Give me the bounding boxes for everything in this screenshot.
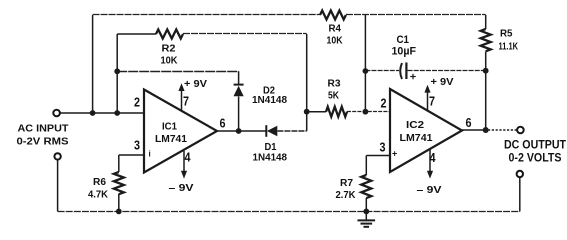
wire D2 vertical top [238,71,240,84]
node: D2/output junction [236,128,242,134]
wire top rail left segment [93,14,320,16]
op-amp U1 IC1 triangle [144,90,217,173]
svg-text:3: 3 [380,141,386,155]
wire IC1 output to D1 [217,130,266,132]
svg-text:R6: R6 [93,176,106,188]
svg-text:+: + [392,149,397,159]
svg-text:R2: R2 [162,43,176,55]
svg-text:4.7K: 4.7K [88,189,108,201]
wire D2 vertical bottom [238,97,240,132]
resistor R6 zigzag [114,172,124,194]
ground stub [365,211,367,219]
svg-text:– 9V: – 9V [169,182,194,194]
wire C1 left [365,70,399,72]
resistor R5 zigzag [481,29,491,51]
arrowhead IC1 pin 4 [181,171,187,179]
svg-text:2: 2 [134,96,140,110]
svg-text:1N4148: 1N4148 [252,95,287,106]
svg-text:7: 7 [429,95,435,109]
svg-text:4: 4 [185,151,191,165]
wire D1 to riser [277,130,306,132]
svg-text:+ 9V: + 9V [184,78,207,90]
wire column top rail to IC2 pin 2 node [364,15,366,112]
node: R6/rail junction [116,209,122,215]
svg-text:AC INPUT: AC INPUT [18,124,69,135]
diode D1 triangle (pointing left) [267,126,277,137]
wire R7 top vertical [365,156,367,176]
svg-text:2.7K: 2.7K [336,189,356,201]
ground bar 3 [364,226,370,228]
node: input/R2 junction [114,110,120,116]
wire R5 bottom to IC2 output [485,52,487,131]
arrowhead IC2 pin 7 [424,85,430,93]
svg-text:4: 4 [430,151,436,165]
-9V arrow IC2 pin 4 [429,149,431,173]
resistor R3 zigzag [326,107,347,117]
svg-text:10K: 10K [161,55,178,67]
svg-text:6: 6 [220,117,226,131]
wire top rail right segment [346,14,486,16]
wire lower input terminal drop [57,159,59,211]
svg-text:5K: 5K [328,90,339,102]
svg-text:i: i [149,150,151,159]
node: C1 left junction [363,68,369,74]
capacitor C1 curved plate [400,63,402,79]
+9V arrow IC1 pin 7 [181,89,183,111]
wire D2 feed horizontal [117,71,238,73]
wire R6 top vertical [118,155,120,172]
wire IC2 output [462,129,483,131]
wire R3 right to IC2 pin 2 [347,111,390,113]
svg-text:+ 9V: + 9V [431,76,454,88]
resistor R7 zigzag [361,175,371,198]
diode D2 triangle (pointing up) [234,86,244,96]
terminal DC output + [517,127,524,134]
svg-text:10K: 10K [327,35,343,47]
terminal AC input + [53,110,60,117]
svg-text:LM741: LM741 [400,133,433,144]
node: input/top-rail junction [90,110,96,116]
svg-text:2: 2 [381,97,387,111]
+9V arrow IC2 pin 7 [427,91,429,111]
diode D1 cathode bar [265,125,267,137]
wire node to DC output terminal [488,129,517,131]
resistor R4 zigzag [320,11,346,20]
node: IC2 output junction [483,127,489,133]
arrowhead IC2 pin 4 [427,171,433,179]
svg-text:1N4148: 1N4148 [253,153,288,164]
svg-text:R3: R3 [328,78,341,90]
wire R2 left vertical [116,34,118,113]
svg-text:LM741: LM741 [155,134,187,145]
wire R5 top stub [485,15,487,29]
svg-text:R7: R7 [340,177,353,189]
svg-text:IC1: IC1 [162,121,177,133]
wire R7 bottom vertical [365,198,367,211]
node: R2/D1/R3 junction [304,109,310,115]
wire R2 left horizontal [117,33,156,35]
wire AC input to IC1 pin 2 [60,112,144,114]
resistor R2 zigzag [156,30,183,39]
svg-text:0-2V RMS: 0-2V RMS [17,137,69,148]
svg-text:0-2 VOLTS: 0-2 VOLTS [509,151,562,165]
svg-text:10µF: 10µF [392,46,417,58]
ground bar 2 [361,223,373,225]
wire bottom rail [58,211,520,213]
wire R3 left [307,111,326,113]
node: R3/IC2 pin2 junction [363,109,369,115]
svg-text:6: 6 [466,116,472,130]
-9V arrow IC1 pin 4 [183,151,185,173]
capacitor C1 plus sign [410,74,415,79]
terminal DC output - [517,171,523,177]
diode D2 cathode bar [234,84,244,86]
node: C1/R5 junction [483,68,489,74]
svg-text:C1: C1 [397,34,410,46]
wire left outer vertical (input to top rail) [92,15,94,113]
svg-text:R4: R4 [329,23,342,35]
svg-text:IC2: IC2 [406,119,424,131]
wire R2/D1 right vertical [306,34,308,131]
svg-text:3: 3 [134,139,140,153]
wire IC1 pin 3 horizontal [119,154,144,156]
svg-text:– 9V: – 9V [417,184,442,196]
op-amp U2 IC2 triangle [390,89,462,172]
wire R2 right horizontal [183,33,307,35]
terminal AC input - [54,153,60,159]
wire lower output terminal drop [519,177,521,211]
node: R2/D2-feed junction [114,68,120,74]
capacitor C1 straight plate [405,63,407,80]
svg-text:11.1K: 11.1K [499,41,519,53]
svg-text:R5: R5 [500,28,513,40]
svg-text:DC OUTPUT: DC OUTPUT [504,138,567,152]
wire IC2 pin 3 horizontal [366,155,390,157]
arrowhead IC1 pin 7 [178,83,184,91]
ground bar 1 [358,219,376,221]
svg-text:7: 7 [183,95,189,109]
node: R7/ground junction [363,209,369,215]
wire R6 bottom vertical [118,194,120,211]
svg-text:D1: D1 [265,141,277,153]
wire C1 right [408,70,486,72]
